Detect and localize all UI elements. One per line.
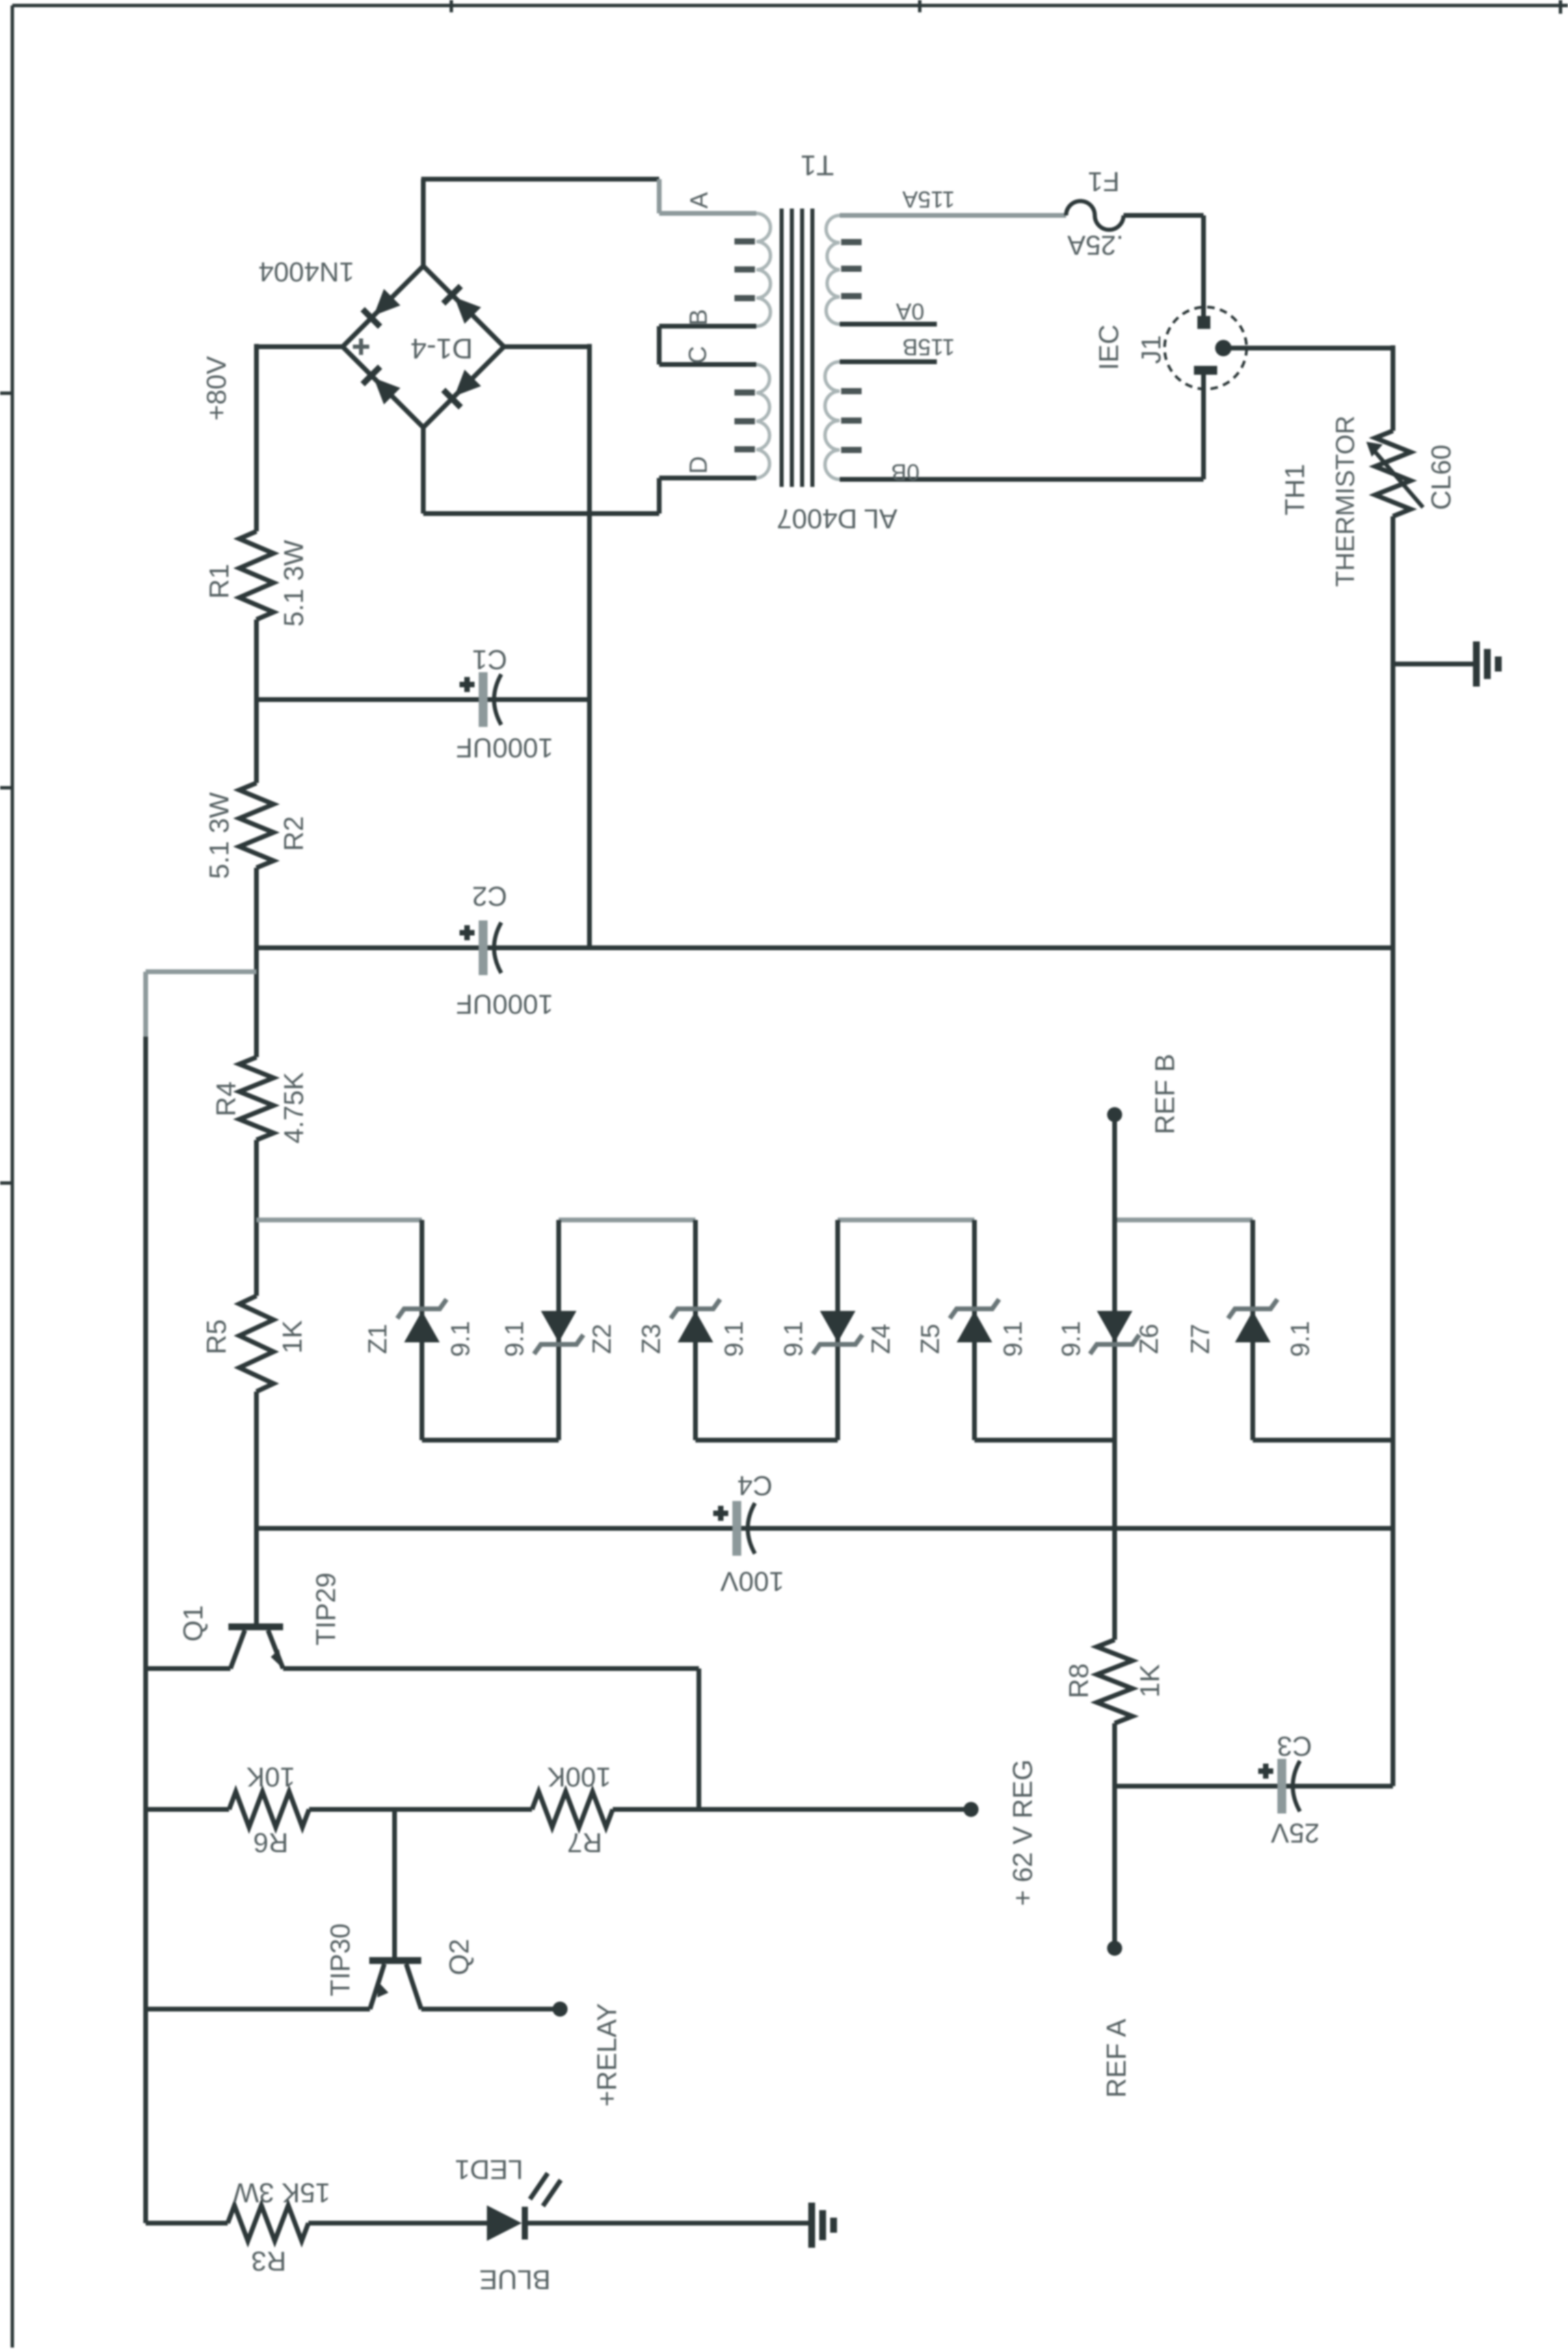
svg-text:0A: 0A (896, 298, 925, 324)
svg-text:R1: R1 (204, 563, 235, 598)
svg-text:+ 62 V REG: + 62 V REG (1008, 1759, 1038, 1907)
svg-text:C1: C1 (472, 644, 507, 674)
svg-text:TIP29: TIP29 (311, 1573, 341, 1646)
svg-text:15K 3W: 15K 3W (233, 2177, 331, 2207)
svg-text:10K: 10K (246, 1762, 295, 1792)
svg-text:TIP30: TIP30 (325, 1924, 356, 1997)
svg-text:R3: R3 (251, 2246, 286, 2276)
svg-text:R8: R8 (1064, 1663, 1094, 1698)
svg-text:J1: J1 (1137, 335, 1167, 364)
svg-text:C4: C4 (737, 1470, 772, 1500)
svg-text:9.1: 9.1 (780, 1321, 808, 1357)
svg-text:Q1: Q1 (178, 1605, 209, 1641)
svg-text:A: A (685, 192, 713, 209)
svg-text:9.1: 9.1 (720, 1321, 749, 1357)
svg-text:AL D4007: AL D4007 (777, 503, 897, 533)
svg-text:D1-4: D1-4 (410, 333, 473, 365)
svg-text:0B: 0B (891, 459, 920, 485)
svg-text:Q2: Q2 (444, 1939, 475, 1975)
svg-text:Z3: Z3 (637, 1324, 666, 1354)
svg-text:Z7: Z7 (1186, 1324, 1215, 1354)
svg-text:REF A: REF A (1102, 2019, 1132, 2098)
svg-text:100V: 100V (720, 1566, 784, 1596)
svg-text:REF B: REF B (1150, 1054, 1180, 1134)
svg-text:1000UF: 1000UF (456, 732, 553, 762)
svg-text:R4: R4 (211, 1081, 241, 1116)
svg-text:1000UF: 1000UF (456, 989, 553, 1019)
svg-text:115A: 115A (902, 186, 955, 212)
svg-text:25V: 25V (1271, 1818, 1319, 1848)
svg-text:T1: T1 (800, 150, 834, 182)
svg-text:115B: 115B (903, 334, 955, 360)
svg-text:9.1: 9.1 (1286, 1321, 1315, 1357)
svg-text:1N4004: 1N4004 (258, 256, 354, 287)
svg-text:IEC: IEC (1094, 325, 1124, 371)
svg-text:R6: R6 (253, 1827, 288, 1857)
svg-text:CL60: CL60 (1426, 444, 1457, 510)
svg-text:TH1: TH1 (1280, 464, 1310, 516)
svg-text:C2: C2 (472, 881, 507, 911)
svg-text:9.1: 9.1 (501, 1321, 529, 1357)
svg-text:Z6: Z6 (1135, 1324, 1164, 1354)
svg-text:.25A: .25A (1067, 230, 1124, 260)
svg-text:1K: 1K (278, 1320, 308, 1353)
svg-text:+80V: +80V (202, 356, 232, 421)
svg-text:1K: 1K (1135, 1664, 1165, 1697)
svg-text:C3: C3 (1277, 1731, 1312, 1761)
svg-text:R2: R2 (279, 816, 309, 851)
svg-text:4.75K: 4.75K (279, 1072, 309, 1143)
svg-text:100K: 100K (547, 1762, 611, 1792)
svg-text:R7: R7 (567, 1827, 602, 1857)
svg-text:C: C (684, 346, 712, 364)
svg-text:Z5: Z5 (916, 1324, 945, 1354)
svg-text:Z1: Z1 (364, 1324, 393, 1354)
svg-text:5.1 3W: 5.1 3W (279, 540, 309, 626)
svg-text:5.1 3W: 5.1 3W (204, 792, 235, 879)
svg-text:Z4: Z4 (867, 1324, 896, 1354)
svg-text:THERMISTOR: THERMISTOR (1331, 416, 1360, 587)
svg-text:Z2: Z2 (588, 1324, 617, 1354)
svg-text:9.1: 9.1 (999, 1321, 1028, 1357)
svg-text:BLUE: BLUE (479, 2264, 551, 2294)
svg-text:F1: F1 (1088, 166, 1120, 196)
svg-text:R5: R5 (202, 1319, 232, 1354)
svg-text:D: D (685, 456, 713, 474)
svg-text:B: B (685, 309, 713, 326)
svg-text:9.1: 9.1 (447, 1321, 475, 1357)
svg-text:9.1: 9.1 (1057, 1321, 1086, 1357)
svg-text:LED1: LED1 (455, 2154, 523, 2184)
svg-text:+RELAY: +RELAY (592, 2003, 622, 2107)
